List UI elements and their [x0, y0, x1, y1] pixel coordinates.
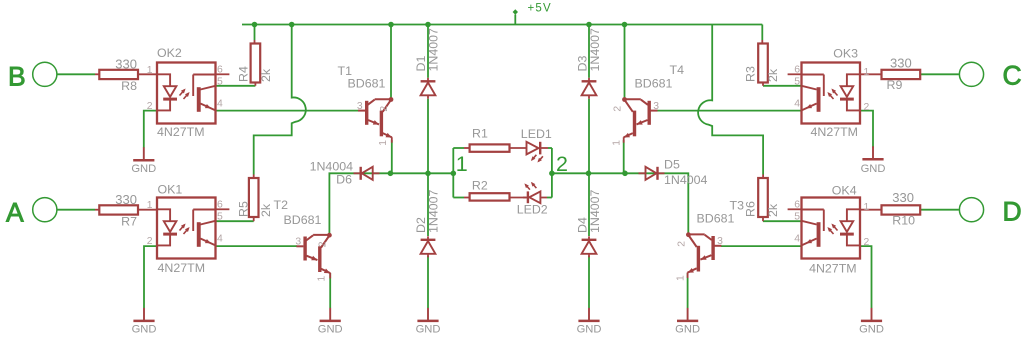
svg-text:2: 2 [147, 101, 153, 112]
svg-text:3: 3 [653, 101, 659, 112]
svg-text:2: 2 [677, 241, 688, 247]
svg-text:330: 330 [892, 190, 914, 205]
svg-text:R10: R10 [892, 213, 915, 227]
svg-text:330: 330 [890, 56, 912, 71]
svg-text:R1: R1 [472, 127, 488, 141]
svg-text:GND: GND [131, 163, 156, 175]
svg-text:4: 4 [217, 234, 223, 245]
svg-text:GND: GND [318, 323, 343, 335]
svg-text:330: 330 [115, 192, 137, 207]
svg-text:330: 330 [115, 57, 137, 72]
svg-text:4N27TM: 4N27TM [157, 125, 205, 139]
svg-text:BD681: BD681 [635, 77, 673, 91]
svg-text:3: 3 [717, 236, 723, 247]
svg-text:GND: GND [859, 323, 884, 335]
svg-text:4N27TM: 4N27TM [158, 261, 206, 275]
svg-text:2k: 2k [766, 203, 780, 217]
svg-text:GND: GND [861, 163, 886, 175]
svg-text:6: 6 [217, 200, 223, 211]
svg-text:4N27TM: 4N27TM [810, 125, 858, 139]
svg-text:T3: T3 [730, 198, 745, 212]
svg-text:B: B [8, 62, 26, 92]
svg-text:R3: R3 [743, 66, 757, 82]
svg-text:A: A [6, 198, 24, 228]
svg-text:D5: D5 [664, 158, 680, 172]
svg-text:1N4007: 1N4007 [588, 189, 602, 233]
svg-text:2: 2 [147, 236, 153, 247]
svg-text:2: 2 [613, 106, 624, 112]
svg-text:5: 5 [794, 211, 800, 222]
svg-text:C: C [1003, 61, 1022, 91]
svg-text:GND: GND [132, 323, 157, 335]
svg-text:GND: GND [577, 323, 602, 335]
svg-text:R2: R2 [472, 179, 488, 193]
svg-text:1: 1 [147, 200, 153, 211]
svg-text:6: 6 [794, 65, 800, 76]
svg-text:1N4007: 1N4007 [588, 28, 602, 72]
svg-text:1: 1 [864, 67, 870, 78]
svg-text:R7: R7 [121, 214, 137, 228]
svg-text:4: 4 [794, 234, 800, 245]
svg-text:6: 6 [217, 65, 223, 76]
svg-text:1: 1 [864, 202, 870, 213]
svg-text:1N4007: 1N4007 [426, 28, 440, 72]
svg-text:2: 2 [864, 102, 870, 113]
svg-text:OK4: OK4 [832, 184, 857, 198]
svg-text:1: 1 [317, 276, 328, 282]
svg-text:2: 2 [379, 106, 390, 112]
svg-text:GND: GND [675, 323, 700, 335]
svg-text:LED2: LED2 [517, 202, 548, 216]
svg-text:2k: 2k [766, 68, 780, 82]
svg-text:3: 3 [357, 101, 363, 112]
svg-text:OK2: OK2 [157, 46, 182, 60]
svg-text:1: 1 [147, 65, 153, 76]
svg-text:6: 6 [794, 200, 800, 211]
svg-text:1N4004: 1N4004 [664, 173, 708, 187]
svg-text:D6: D6 [336, 173, 352, 187]
svg-text:T2: T2 [274, 198, 289, 212]
svg-text:OK3: OK3 [833, 47, 858, 61]
svg-text:R4: R4 [237, 66, 251, 82]
svg-text:2: 2 [556, 152, 568, 176]
svg-text:BD681: BD681 [284, 213, 322, 227]
svg-text:LED1: LED1 [521, 127, 552, 141]
svg-text:2k: 2k [259, 203, 273, 217]
svg-text:2k: 2k [259, 68, 273, 82]
svg-text:4: 4 [794, 99, 800, 110]
svg-text:R8: R8 [121, 79, 137, 93]
svg-text:1N4007: 1N4007 [426, 189, 440, 233]
svg-text:5: 5 [217, 76, 223, 87]
svg-text:R5: R5 [237, 201, 251, 217]
svg-text:1: 1 [612, 140, 623, 146]
svg-text:1: 1 [456, 152, 468, 176]
svg-text:4N27TM: 4N27TM [809, 262, 857, 276]
svg-text:D: D [1003, 197, 1022, 227]
svg-text:2: 2 [318, 241, 329, 247]
svg-text:+5V: +5V [528, 2, 552, 14]
svg-text:4: 4 [217, 99, 223, 110]
svg-text:5: 5 [217, 211, 223, 222]
svg-text:1: 1 [378, 140, 389, 146]
svg-text:R6: R6 [743, 201, 757, 217]
svg-text:OK1: OK1 [158, 183, 183, 197]
svg-text:GND: GND [416, 323, 441, 335]
svg-text:T4: T4 [670, 63, 685, 77]
svg-text:BD681: BD681 [697, 211, 735, 225]
svg-text:3: 3 [295, 237, 301, 248]
svg-text:2: 2 [864, 237, 870, 248]
svg-text:5: 5 [794, 76, 800, 87]
svg-text:R9: R9 [887, 78, 903, 92]
svg-text:BD681: BD681 [348, 77, 386, 91]
svg-text:1: 1 [676, 275, 687, 281]
svg-text:1N4004: 1N4004 [310, 160, 354, 174]
